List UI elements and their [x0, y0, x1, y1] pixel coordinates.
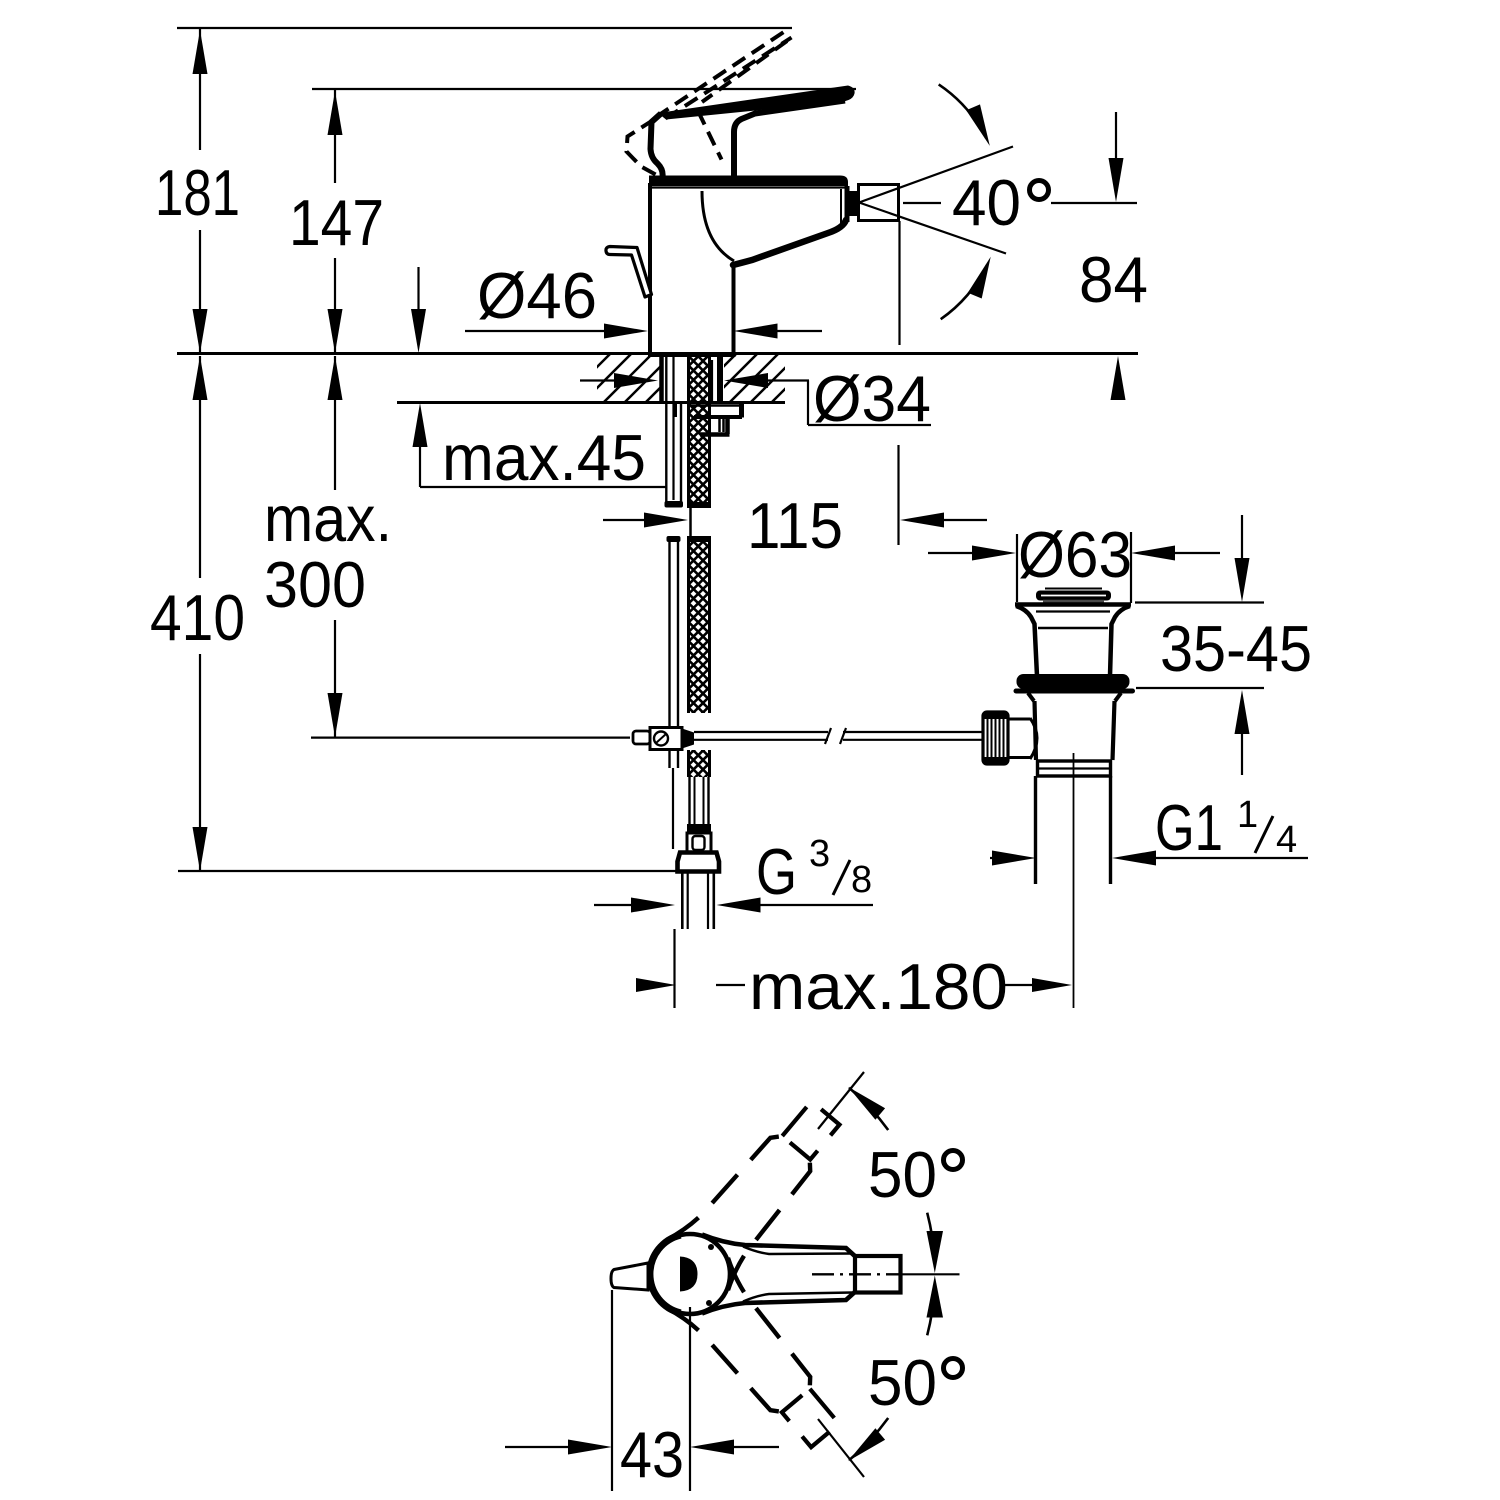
node: dimension line 410: [193, 356, 208, 871]
svg-text:Ø63: Ø63: [1018, 518, 1132, 591]
drain cup lip: [1015, 602, 1131, 607]
svg-text:40: 40: [952, 166, 1021, 239]
faucet body left edge: [648, 183, 652, 353]
svg-text:84: 84: [1079, 243, 1148, 316]
solid handle underside and front fork edge: [734, 101, 845, 178]
drain knob stem: [1008, 718, 1030, 721]
40 degree upper arc with arrowhead: [939, 84, 986, 137]
svg-text:8: 8: [851, 859, 872, 901]
drain body sides: [1035, 701, 1115, 760]
pop-up rod upper part: [672, 356, 674, 500]
dimension 84 lower arrow: [1111, 356, 1126, 400]
upper 50 degree reference line: [818, 1072, 864, 1129]
solid handle back edge: [651, 114, 663, 178]
mounting nut: [700, 417, 730, 435]
mounting shank left edge: [659, 356, 664, 401]
plan view body circle: [650, 1234, 730, 1314]
svg-text:1: 1: [1237, 794, 1258, 836]
dimension 35-45: [1135, 515, 1264, 775]
pop-up rod clamp joint: [633, 731, 650, 744]
drain cup right side: [1110, 606, 1130, 676]
svg-text:181: 181: [155, 156, 240, 229]
drain cup inner lines: [1036, 610, 1110, 612]
faucet cap (handle base) thick band: [649, 176, 848, 187]
plan view dashed handle rotated up 50 degrees: [667, 1087, 855, 1290]
mounting flange under counter: [676, 403, 743, 418]
pop-up rod lower part: [672, 768, 674, 849]
solid handle top bar (filled wedge): [658, 86, 855, 120]
plan view screw dots: [708, 1244, 714, 1250]
svg-text:Ø46: Ø46: [477, 259, 597, 332]
hose end connector: [687, 833, 711, 852]
braided supply hose middle section: [687, 536, 711, 542]
wire: bottom reference line of 410: [178, 870, 678, 872]
spray cone upper line: [859, 147, 1013, 203]
faucet cap thin under-line: [652, 186, 846, 188]
svg-text:300: 300: [264, 548, 366, 621]
svg-text:35-45: 35-45: [1160, 612, 1312, 685]
spout end face: [845, 186, 850, 222]
counter hatching: [560, 352, 864, 404]
faucet body right edge: [732, 262, 736, 353]
lower 50 degree reference line: [818, 1419, 864, 1477]
shank thin line right: [711, 360, 713, 401]
dimension G1 1/4: [990, 851, 1308, 866]
wire: top reference line for 181: [177, 27, 792, 29]
plan view cartridge mark (D shape): [680, 1257, 698, 1292]
plan view dashed handle rotated down 50 degrees: [667, 1258, 855, 1461]
svg-text:43: 43: [620, 1418, 684, 1491]
node: max.45 upper arrow: [411, 267, 426, 353]
wire: reference line of max.300: [311, 736, 630, 738]
wire: reference line for 147: [312, 88, 856, 90]
hose gap connecting line: [689, 508, 692, 536]
extension line from spray square right edge: [898, 221, 900, 345]
dimension Ø34 arrows at shank: [580, 373, 809, 388]
drain cup left side: [1016, 606, 1037, 676]
dimension G 3/8: [594, 898, 873, 913]
hose end fitting black band: [687, 824, 711, 833]
braided hose lower section: [689, 750, 710, 777]
dimension Ø63: [928, 532, 1220, 603]
aerator block at spout tip: [849, 191, 858, 216]
drain seal ring: [1017, 674, 1130, 689]
hose tail pipe G3/8: [681, 872, 684, 929]
plan view pop-up lever tab: [611, 1263, 648, 1290]
spray cone centerline segments: [903, 202, 941, 204]
pop-up actuator lever on body left: [606, 247, 652, 298]
mounting shank right edge: [717, 356, 723, 401]
spray cone square: [859, 185, 899, 221]
drain lower ring: [1038, 761, 1111, 776]
plan view centerline: [812, 1273, 902, 1275]
svg-text:50: 50: [868, 1138, 937, 1211]
svg-text:Ø34: Ø34: [813, 362, 931, 435]
hose union nut: [678, 853, 720, 872]
spout underside: [733, 220, 846, 265]
horizontal pop-up linkage rod left section: [694, 731, 828, 733]
40 degree lower arc with arrowhead: [941, 265, 987, 319]
dimension 43: [505, 1290, 779, 1491]
dimension Ø46: [465, 324, 822, 339]
node: dimension line 147: [328, 89, 343, 353]
svg-text:max.: max.: [264, 482, 392, 555]
lower 50 degree arc: [849, 1418, 888, 1460]
Ø34 label leader and underline: [807, 381, 809, 426]
node: dimension line 181: [193, 28, 208, 353]
node: dimension line max.300: [328, 356, 343, 737]
hose smooth tube section: [688, 777, 690, 824]
dimension 84 upper arrow: [1109, 112, 1124, 202]
svg-text:4: 4: [1276, 819, 1297, 861]
pop-up rod guide tube in shank: [665, 356, 667, 507]
svg-text:115: 115: [747, 489, 843, 562]
dimension 115: [603, 513, 987, 528]
plan view solid handle: [702, 1235, 857, 1258]
braided supply hose upper section: [689, 356, 710, 502]
svg-text:G: G: [756, 835, 797, 908]
drain flange under seal: [1014, 689, 1136, 694]
drain centerline: [1073, 753, 1075, 1008]
dimension max.180: [636, 929, 1072, 1008]
svg-text:max.45: max.45: [442, 421, 646, 494]
horizontal pop-up linkage rod right section: [843, 731, 983, 733]
counter top surface line: [177, 352, 1138, 355]
node: max.45 lower arrow with leader: [413, 403, 668, 487]
spray cone lower line: [859, 203, 1006, 254]
pop-up rod guide tube lower part: [667, 536, 681, 542]
dashed handle in raised position: [627, 29, 792, 178]
drain pop-up plug top: [1045, 588, 1102, 590]
svg-text:G1: G1: [1155, 791, 1223, 864]
svg-text:410: 410: [150, 581, 245, 654]
drain knurled knob: [983, 712, 1008, 764]
counter bottom line: [397, 401, 785, 404]
upper 50 degree arc: [849, 1088, 888, 1130]
spout aerator joint line: [840, 189, 842, 226]
svg-text:50: 50: [868, 1346, 937, 1419]
svg-text:147: 147: [289, 186, 384, 259]
svg-text:3: 3: [809, 833, 830, 875]
spout root inner curve: [702, 191, 734, 261]
svg-text:max.180: max.180: [749, 950, 1008, 1023]
drain tail pipe: [1034, 776, 1037, 884]
